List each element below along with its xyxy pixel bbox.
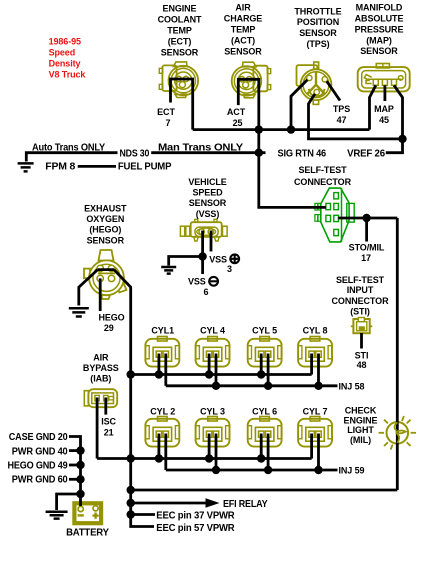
- VSS pin oval: [197, 228, 216, 235]
- symbol VSS plus: [230, 254, 239, 263]
- ECT key body: [162, 65, 176, 91]
- STI top bump: [358, 318, 364, 322]
- injector CYL6: [248, 417, 282, 447]
- injector CYL2: [145, 417, 179, 447]
- injector CYL1: [145, 337, 179, 367]
- svg-text:NDS 30: NDS 30: [120, 149, 150, 160]
- svg-text:CONNECTOR: CONNECTOR: [294, 177, 352, 187]
- svg-text:CYL1: CYL1: [151, 325, 174, 335]
- wire PWR GND 60 stub: [69, 478, 81, 481]
- label ACT sensor: [224, 3, 263, 57]
- HEGO pin 3: [97, 275, 103, 281]
- svg-text:CYL 8: CYL 8: [303, 325, 328, 335]
- node VREF junction: [398, 135, 406, 143]
- wire ACT pins staple + drop through NDS line to self-test connector: [238, 79, 326, 207]
- wire NDS line right segment (Man Trans) to SIG RTN 46: [151, 151, 265, 154]
- svg-text:CONNECTOR: CONNECTOR: [332, 296, 390, 306]
- svg-text:CYL 7: CYL 7: [303, 406, 328, 416]
- svg-text:EEC pin 37 VPWR: EEC pin 37 VPWR: [156, 511, 235, 522]
- injector CYL7: [298, 417, 332, 447]
- wire ECT pins staple + ECT right pin drop to SIG RTN bus: [171, 79, 193, 130]
- TPS top tab: [314, 62, 319, 69]
- TPS pin A: [307, 75, 312, 80]
- svg-text:EEC pin 57 VPWR: EEC pin 57 VPWR: [156, 523, 235, 534]
- pin label VSS 3: [209, 255, 232, 274]
- node VPWR/bus A junction: [127, 370, 135, 378]
- MAP pin 2: [382, 79, 387, 85]
- svg-text:1986-95: 1986-95: [49, 37, 81, 47]
- wire SIG RTN horizontal bus y=129.6: [193, 128, 370, 131]
- svg-text:ABSOLUTE: ABSOLUTE: [355, 14, 404, 24]
- node PWR GND 60 junction: [76, 475, 84, 483]
- svg-text:CYL 6: CYL 6: [252, 406, 277, 416]
- ground HEGO: [69, 308, 89, 316]
- label SELF-TEST INPUT CONNECTOR (STI): [332, 275, 390, 317]
- pin label STI 48: [355, 351, 369, 371]
- svg-text:INPUT: INPUT: [347, 285, 374, 295]
- svg-text:(STI): (STI): [350, 306, 370, 316]
- IAB inner shell: [92, 393, 114, 404]
- wire HEGO top pins bar: [98, 268, 114, 271]
- svg-text:CYL 3: CYL 3: [200, 406, 225, 416]
- svg-text:SENSOR: SENSOR: [299, 28, 337, 38]
- battery plus mark: [93, 513, 99, 519]
- battery minus mark: [78, 514, 84, 516]
- node bus A CYL1: [155, 370, 163, 378]
- node SIG RTN / ACT junction: [255, 125, 263, 133]
- svg-text:45: 45: [379, 115, 389, 125]
- wire battery ground branch: [57, 494, 81, 510]
- svg-text:OXYGEN: OXYGEN: [86, 214, 124, 224]
- svg-text:(VSS): (VSS): [196, 209, 220, 219]
- svg-text:3: 3: [227, 264, 232, 274]
- MIL bulb filament: [394, 422, 405, 443]
- svg-text:47: 47: [337, 115, 347, 125]
- VSS left wings: [180, 226, 184, 236]
- wire VSS ground branch: [169, 257, 203, 266]
- IAB notch: [109, 397, 114, 400]
- MIL bulb circle: [387, 422, 409, 444]
- HEGO outer circle: [89, 260, 124, 295]
- ACT pin 2: [247, 77, 252, 82]
- wire TPS left pin to SIG RTN bus: [291, 80, 307, 130]
- HEGO pin 4: [108, 275, 114, 281]
- label EXHAUST OXYGEN (HEGO) SENSOR: [84, 204, 127, 246]
- svg-text:VEHICLE: VEHICLE: [188, 177, 226, 187]
- label 1986-95 Speed Density V8 Truck: [49, 37, 87, 80]
- HEGO left tab: [84, 269, 90, 279]
- wire EEC pin 37 VPWR stub: [131, 513, 155, 516]
- svg-text:ENGINE: ENGINE: [163, 4, 197, 14]
- svg-text:LIGHT: LIGHT: [347, 425, 374, 435]
- svg-text:BATTERY: BATTERY: [66, 528, 109, 539]
- svg-text:EXHAUST: EXHAUST: [84, 204, 127, 214]
- svg-text:THROTTLE: THROTTLE: [294, 6, 341, 16]
- ECT top tab: [174, 62, 188, 67]
- label SELF-TEST CONNECTOR: [294, 165, 352, 187]
- TPS pin B: [322, 77, 327, 82]
- arrow EFI relay: [206, 498, 220, 507]
- label CHECK ENGINE LIGHT (MIL): [344, 405, 378, 445]
- wire MAP right pin to VREF node: [394, 85, 403, 139]
- injector CYL5: [248, 337, 282, 367]
- wire STI stub STI 48: [360, 333, 363, 349]
- svg-text:25: 25: [233, 118, 243, 128]
- wire EFI RELAY line: [131, 502, 206, 505]
- svg-text:6: 6: [204, 287, 209, 297]
- wire STO/MIL 17 stub: [365, 218, 368, 242]
- pin label MAP 45: [374, 104, 394, 125]
- STI side tabs: [351, 325, 354, 327]
- svg-text:MAP: MAP: [374, 104, 394, 114]
- TPS wishbone: [309, 89, 325, 96]
- svg-text:V8 Truck: V8 Truck: [49, 70, 87, 80]
- svg-text:SENSOR: SENSOR: [161, 48, 199, 58]
- injector CYL3: [196, 417, 230, 447]
- node battery ground junction: [76, 490, 84, 498]
- node bus A CYL4: [205, 370, 213, 378]
- svg-text:ISC: ISC: [101, 416, 116, 426]
- HEGO bottom tab: [101, 295, 110, 299]
- svg-text:SPEED: SPEED: [192, 188, 223, 198]
- node PWR GND 40 junction: [76, 446, 84, 454]
- svg-text:HEGO: HEGO: [98, 313, 124, 323]
- node bus C CYL2: [155, 454, 163, 462]
- svg-text:7: 7: [166, 118, 171, 128]
- VSS pin minus: [199, 229, 204, 234]
- battery terminal negative: [78, 506, 83, 511]
- svg-text:EFI RELAY: EFI RELAY: [223, 499, 268, 510]
- node VPWR/EEC37 junction: [127, 510, 135, 518]
- svg-text:SELF-TEST: SELF-TEST: [298, 165, 347, 175]
- MAP top tabs: [376, 64, 389, 68]
- wire CASE GND 20 stub to ground vertical: [69, 437, 81, 507]
- svg-text:TEMP: TEMP: [167, 26, 192, 36]
- svg-text:SENSOR: SENSOR: [189, 198, 227, 208]
- wire CYL7 pin drops: [310, 434, 313, 459]
- svg-text:STO/MIL: STO/MIL: [349, 242, 385, 252]
- ground NDS auto trans: [18, 163, 34, 171]
- svg-text:(HEGO): (HEGO): [89, 225, 121, 235]
- svg-text:(IAB): (IAB): [90, 374, 111, 384]
- wire NDS line left segment with ground: [26, 153, 117, 162]
- node HEGO GND 49 junction: [76, 461, 84, 469]
- pin label VSS 6: [188, 276, 209, 297]
- ground battery chassis: [46, 512, 68, 519]
- pin label ACT 25: [227, 107, 246, 128]
- VSS inner shell: [195, 227, 218, 236]
- svg-text:(MIL): (MIL): [350, 435, 371, 445]
- ground VSS: [161, 267, 176, 274]
- MAP right boss: [398, 76, 403, 81]
- svg-text:MANIFOLD: MANIFOLD: [356, 3, 403, 13]
- svg-text:BYPASS: BYPASS: [83, 363, 119, 373]
- node VPWR/bulb line junction: [127, 486, 135, 494]
- node bus D CYL6: [264, 466, 272, 474]
- battery terminal positive: [93, 506, 98, 511]
- MAP pin 3: [392, 79, 397, 85]
- MAP pin 1: [373, 79, 378, 85]
- svg-text:SENSOR: SENSOR: [360, 46, 398, 56]
- svg-text:29: 29: [104, 323, 114, 333]
- node STO/MIL junction: [362, 214, 370, 222]
- node bus D CYL7: [314, 466, 322, 474]
- TPS bottom tab: [313, 100, 318, 105]
- self-test left tabs: [315, 203, 318, 210]
- svg-text:STI: STI: [355, 351, 369, 361]
- self-test shell octagon: [321, 188, 349, 242]
- wire injector bus C row2 left pins: [97, 457, 312, 460]
- self-test pins column middle: [334, 193, 339, 199]
- wire CYL1 pin drops: [157, 354, 160, 375]
- svg-text:Density: Density: [49, 59, 81, 69]
- HEGO center bar: [98, 272, 115, 274]
- node bus C CYL3: [205, 454, 213, 462]
- ECT pin 2: [183, 76, 188, 81]
- wire VREF node down to VREF 26 stub: [386, 139, 403, 153]
- svg-text:CHARGE: CHARGE: [224, 14, 262, 24]
- ACT index boss: [243, 82, 249, 88]
- VSS body: [191, 222, 222, 237]
- svg-text:AIR: AIR: [235, 3, 251, 13]
- svg-text:(ECT): (ECT): [168, 37, 192, 47]
- ECT pin 1: [176, 76, 181, 81]
- wire PWR GND 40 stub: [69, 449, 81, 452]
- HEGO pin 1: [97, 265, 103, 271]
- svg-text:PWR GND 40: PWR GND 40: [12, 446, 68, 457]
- self-test pins column left: [326, 203, 331, 209]
- HEGO pin 2: [108, 265, 114, 271]
- node bus A CYL5: [257, 370, 265, 378]
- svg-text:SELF-TEST: SELF-TEST: [336, 275, 385, 285]
- svg-text:FUEL PUMP: FUEL PUMP: [118, 162, 172, 173]
- svg-text:COOLANT: COOLANT: [158, 15, 202, 25]
- svg-text:TEMP: TEMP: [231, 25, 256, 35]
- pin label STO/MIL 17: [349, 242, 385, 263]
- node bus B CYL8: [314, 382, 322, 390]
- wire FPM 8 to FUEL PUMP: [78, 165, 116, 168]
- node bus B CYL5: [264, 382, 272, 390]
- IAB pin 2: [104, 395, 108, 401]
- self-test right pin: [347, 203, 354, 222]
- node TPS left pin junction: [287, 125, 295, 133]
- wire HEGO to chassis ground: [79, 270, 98, 306]
- svg-text:TPS: TPS: [333, 104, 350, 114]
- svg-text:Speed: Speed: [49, 48, 76, 58]
- ACT bottom tab: [244, 95, 255, 98]
- wire injector bus D row2 right pins INJ 59: [166, 469, 338, 472]
- wire CYL2 pin drops: [157, 434, 160, 459]
- STI inner: [357, 322, 367, 331]
- ECT index boss: [179, 82, 185, 88]
- VSS right wings: [223, 226, 228, 236]
- symbol VSS minus: [209, 277, 218, 286]
- svg-text:CHECK: CHECK: [345, 405, 377, 415]
- wire HEGO signal stub HEGO 29: [99, 278, 102, 311]
- svg-text:POSITION: POSITION: [297, 17, 339, 27]
- wire MAP left pin to SIG RTN bus: [370, 85, 376, 129]
- STI outer: [353, 319, 369, 333]
- svg-text:PRESSURE: PRESSURE: [355, 24, 404, 34]
- svg-text:HEGO GND 49: HEGO GND 49: [8, 461, 69, 472]
- ACT pin 1: [239, 77, 244, 82]
- svg-text:FPM 8: FPM 8: [45, 162, 75, 173]
- node VSS ground junction: [198, 252, 206, 260]
- svg-text:(MAP): (MAP): [366, 35, 392, 45]
- svg-text:SENSOR: SENSOR: [224, 47, 262, 57]
- wire VSS left pin down to VSS 6 stub: [201, 231, 204, 275]
- wire IAB right pin stub ISC 21: [104, 398, 107, 415]
- VSS pin plus: [208, 229, 213, 234]
- ACT top tab: [243, 62, 257, 67]
- ECT bottom tab: [175, 94, 186, 97]
- svg-text:CASE GND 20: CASE GND 20: [9, 432, 68, 443]
- wire right vertical through check engine bulb: [396, 218, 399, 490]
- svg-text:21: 21: [104, 427, 114, 437]
- node bus C CYL6: [257, 454, 265, 462]
- wire MAP center pin stub MAP 45: [383, 85, 386, 101]
- svg-text:AIR: AIR: [93, 353, 109, 363]
- self-test divider: [341, 188, 343, 242]
- wire injector bus B row1 right pins INJ 58: [166, 384, 338, 387]
- svg-text:VSS: VSS: [209, 255, 227, 265]
- label ECT sensor: [158, 4, 202, 58]
- wire bottom long horizontal to VPWR vertical: [131, 489, 398, 492]
- wire VSS right pin stub VSS 3: [210, 231, 213, 252]
- node bus D CYL3: [212, 466, 220, 474]
- svg-text:SENSOR: SENSOR: [87, 235, 125, 245]
- IAB pin 1: [95, 395, 99, 401]
- svg-text:(ACT): (ACT): [231, 36, 255, 46]
- node NDS line / SIG RTN drop junction: [255, 149, 263, 157]
- svg-text:INJ 58: INJ 58: [339, 382, 365, 392]
- STI pin fill: [359, 326, 365, 330]
- wire self-test connector output to right vertical: [338, 217, 397, 220]
- wire TPS bottom pin to VREF line: [309, 94, 403, 139]
- svg-text:Man Trans ONLY: Man Trans ONLY: [158, 143, 244, 154]
- pin label ECT 7: [157, 107, 175, 128]
- svg-text:48: 48: [357, 360, 367, 370]
- IAB body: [88, 389, 117, 407]
- wire HEGO GND 49 stub: [69, 464, 81, 467]
- svg-text:SIG RTN 46: SIG RTN 46: [278, 148, 327, 159]
- HEGO top tab: [99, 250, 114, 261]
- node VPWR/EFI relay junction: [127, 499, 135, 507]
- pin label TPS 47: [333, 104, 350, 125]
- svg-text:INJ 59: INJ 59: [339, 466, 365, 476]
- ACT circles: [232, 66, 262, 96]
- ECT circles: [169, 66, 199, 96]
- svg-text:ECT: ECT: [157, 107, 175, 117]
- pin label ISC 21: [101, 416, 116, 437]
- node bus B CYL4: [212, 382, 220, 390]
- label TPS sensor: [294, 6, 341, 49]
- wire injector bus A row1 left pins: [131, 373, 312, 376]
- MAP left key: [364, 75, 371, 84]
- svg-text:CYL 4: CYL 4: [200, 325, 225, 335]
- wire TPS right pin stub TPS 47: [327, 81, 340, 100]
- VSS bottom tabs: [194, 237, 198, 241]
- svg-text:VSS: VSS: [188, 276, 206, 286]
- MAP outer shell: [358, 67, 410, 91]
- svg-text:Auto Trans ONLY: Auto Trans ONLY: [32, 143, 105, 154]
- TPS pin C: [314, 89, 319, 94]
- battery case: [74, 503, 101, 523]
- MAP inner shell: [362, 71, 406, 88]
- injector CYL4: [196, 337, 230, 367]
- wire CYL3 pin drops: [208, 434, 211, 459]
- svg-text:ENGINE: ENGINE: [344, 415, 378, 425]
- svg-text:17: 17: [361, 253, 371, 263]
- svg-text:CYL 5: CYL 5: [252, 325, 277, 335]
- wire CYL8 pin drops: [310, 354, 313, 375]
- TPS Y divider: [307, 73, 325, 95]
- label MAP sensor: [355, 3, 404, 57]
- ACT key body: [253, 66, 267, 92]
- label AIR BYPASS (IAB): [83, 353, 119, 384]
- svg-text:ACT: ACT: [227, 107, 246, 117]
- node VPWR/bus C junction: [127, 454, 135, 462]
- svg-text:PWR GND 60: PWR GND 60: [12, 475, 68, 486]
- IAB left cap: [84, 391, 88, 406]
- svg-text:CYL 2: CYL 2: [150, 406, 175, 416]
- HEGO bottom right tab: [116, 283, 126, 293]
- svg-text:(TPS): (TPS): [307, 39, 330, 49]
- MAP pin rail: [367, 78, 401, 80]
- TPS key square: [297, 65, 318, 86]
- wire CYL6 pin drops: [260, 434, 263, 459]
- VSS top bumps: [195, 219, 198, 222]
- wire CYL4 pin drops: [208, 354, 211, 375]
- MIL rays: [379, 416, 416, 449]
- label VSS sensor: [188, 177, 226, 219]
- TPS circles: [301, 69, 332, 100]
- svg-text:VREF 26: VREF 26: [347, 149, 385, 160]
- wire IAB left pin to bus C: [96, 398, 99, 459]
- pin label HEGO 29: [98, 313, 124, 334]
- wire CYL5 pin drops: [260, 354, 263, 375]
- injector CYL8: [298, 337, 332, 367]
- wire HEGO heater to VPWR vertical and EEC pin 57: [114, 270, 154, 527]
